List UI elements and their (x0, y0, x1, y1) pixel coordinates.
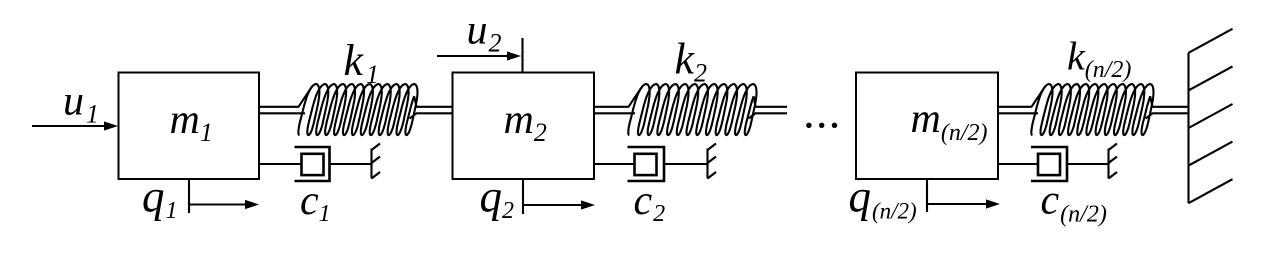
spring k3 coil (1031, 84, 1153, 135)
damper c3 cylinder cup (1031, 147, 1067, 181)
spring k1 coil (298, 84, 417, 135)
spring k1 right rod (double line) (416, 107, 452, 114)
output q1 arrow line (189, 203, 247, 205)
damper c2 anchor clip (708, 144, 717, 179)
spring k3 left rod (double line) (998, 107, 1038, 114)
ellipsis dots (806, 123, 811, 128)
wall hatching (1189, 29, 1233, 203)
output q2 drop line (522, 179, 524, 214)
output q(n/2) arrow line (927, 203, 988, 205)
spring k2 right rod (double line) (755, 107, 787, 114)
output q1 arrow arrowhead (245, 200, 259, 209)
output q2 arrow line (523, 204, 583, 206)
input u2 drop line (521, 38, 523, 73)
damper c2 left rod (594, 163, 635, 165)
spring k1 exit slant (410, 96, 417, 118)
input u1 arrow line (32, 125, 106, 127)
damper c1 right rod (330, 163, 372, 165)
damper c3 anchor clip (1109, 144, 1118, 179)
damper c1 left rod (259, 163, 302, 165)
output q(n/2) drop line (926, 179, 928, 213)
input u2 arrow arrowhead (507, 51, 521, 60)
spring k3 entry slant (1032, 86, 1046, 107)
damper c1 piston square (302, 154, 324, 175)
damper c3 right rod (1067, 163, 1109, 165)
damper c3 left rod (998, 163, 1038, 165)
mass block m2 (453, 73, 595, 180)
output q(n/2) arrow arrowhead (986, 199, 1000, 208)
output q2 arrow arrowhead (581, 200, 595, 209)
spring k2 entry slant (629, 86, 643, 107)
input u1 arrow arrowhead (104, 121, 118, 130)
damper c1 cylinder cup (295, 147, 330, 181)
output q1 drop line (188, 179, 190, 213)
spring k1 entry slant (299, 86, 313, 107)
input u2 arrow line (437, 55, 509, 57)
wall line (1187, 53, 1189, 203)
damper c1 anchor clip (372, 144, 381, 179)
damper c2 right rod (664, 163, 708, 165)
spring k3 right rod (double line) (1152, 107, 1188, 114)
spring k2 left rod (double line) (594, 107, 635, 114)
spring k1 left rod (double line) (259, 107, 305, 114)
spring k2 exit slant (749, 96, 756, 118)
damper c3 piston square (1038, 154, 1060, 175)
damper c2 cylinder cup (628, 147, 665, 181)
spring k3 exit slant (1146, 96, 1153, 118)
mass block m1 (119, 73, 260, 180)
damper c2 piston square (635, 154, 657, 175)
spring k2 coil (628, 84, 756, 135)
mass block m(n/2) (856, 73, 998, 180)
